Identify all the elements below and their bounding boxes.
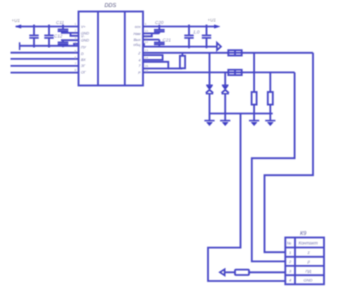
ground 2 (220, 114, 230, 126)
resistor R6 horizontal row3 (235, 270, 249, 275)
resistor R3 vertical (180, 53, 185, 69)
svg-text:GND: GND (81, 39, 89, 43)
svg-text:13: 13 (145, 49, 149, 53)
wire pin4 right (143, 39, 159, 41)
label right chip pin names (133, 25, 141, 75)
capacitor C21 (154, 40, 165, 47)
label pin numbers right (145, 23, 149, 73)
label pin numbers left (75, 23, 77, 73)
svg-text:C11: C11 (56, 20, 65, 25)
node output open triangle (217, 43, 221, 50)
ground 3 (249, 114, 259, 126)
svg-text:Σ: Σ (307, 250, 311, 255)
node +U1 right arrow (214, 25, 220, 28)
wire data bus line 2 left (11, 58, 79, 60)
svg-text:Z: Z (137, 51, 141, 55)
svg-text:12: 12 (145, 40, 149, 44)
svg-text:DDS: DDS (105, 3, 117, 9)
svg-text:C20: C20 (155, 20, 164, 25)
ground 4 (265, 114, 275, 126)
svg-text:Нам: Нам (133, 32, 141, 36)
svg-text:16: 16 (145, 69, 149, 73)
svg-text:ПД: ПД (306, 268, 312, 273)
wire pin5 right jog (143, 44, 144, 47)
wire pin6 right signal (143, 52, 228, 54)
svg-text:ПУ: ПУ (81, 45, 87, 49)
svg-text:3: 3 (289, 268, 292, 273)
wire pins 9-10 loop (143, 62, 168, 69)
svg-text:Р: Р (138, 71, 141, 75)
svg-text:+U1: +U1 (12, 18, 21, 23)
svg-text:4: 4 (139, 58, 141, 62)
svg-text:15: 15 (145, 65, 149, 69)
resistor R4 vertical (252, 53, 257, 114)
wire data bus line 3 left (11, 65, 79, 67)
wire pin3 right stub (143, 33, 152, 36)
svg-text:C21: C21 (163, 37, 172, 42)
svg-text:11: 11 (145, 36, 149, 40)
svg-text:Вых: Вых (134, 38, 141, 42)
svg-text:D: D (81, 52, 84, 56)
capacitor C9 left bypass 1 (29, 25, 38, 48)
resistor R2 horizontal (228, 70, 241, 75)
svg-text:1: 1 (75, 23, 77, 27)
svg-text:Контакт: Контакт (299, 241, 319, 246)
wire pin2 right (143, 32, 159, 34)
svg-text:3: 3 (75, 36, 77, 40)
wire row3 left segment (225, 271, 235, 273)
svg-text:GND: GND (304, 278, 313, 283)
svg-text:осн: осн (135, 25, 141, 29)
svg-text:2: 2 (288, 259, 292, 264)
capacitor C20 (154, 25, 165, 34)
svg-text:5: 5 (75, 50, 77, 54)
svg-text:C12: C12 (54, 34, 63, 39)
svg-text:14: 14 (145, 56, 149, 60)
svg-text:№: № (287, 240, 291, 245)
capacitor C10 left bypass 2 (44, 25, 53, 48)
wire +U rail right (pin out) (143, 26, 217, 28)
svg-text:8: 8 (75, 68, 77, 72)
diode VD1 (206, 53, 213, 114)
svg-text:6: 6 (75, 56, 77, 60)
resistor R5 vertical (268, 72, 273, 113)
wire pins 7-8 loop (143, 55, 163, 60)
wire left common rail (20, 45, 79, 47)
wire pin11 right signal (143, 71, 228, 73)
wire pin3 left stub (71, 33, 79, 36)
svg-text:9: 9 (145, 23, 147, 27)
wire pin4 left (61, 39, 79, 41)
wire pin6 net to right edge (242, 52, 313, 54)
wire pin11 net to corner (242, 71, 295, 73)
svg-text:4: 4 (289, 278, 292, 283)
wire data bus line 4 left (11, 72, 79, 74)
wire pin10 extension to R3 (168, 68, 182, 70)
svg-text:1: 1 (289, 250, 291, 255)
svg-text:7: 7 (139, 64, 142, 68)
svg-text:ОГ: ОГ (81, 71, 87, 75)
svg-text:10: 10 (145, 30, 149, 34)
wire pin5 left jog (74, 44, 79, 46)
node +U1 left arrow (15, 25, 21, 28)
wire right common rail (144, 46, 217, 48)
capacitor C11 (58, 25, 69, 33)
node left rail end bar (19, 42, 21, 50)
svg-text:ЗГ: ЗГ (81, 64, 86, 68)
capacitor C22 bypass right 1 (184, 25, 193, 49)
wire net row1 staircase (265, 53, 314, 252)
svg-text:1,0: 1,0 (193, 30, 200, 35)
svg-text:общ: общ (133, 43, 140, 47)
svg-text:V+: V+ (81, 25, 86, 29)
svg-text:β: β (307, 259, 311, 264)
wire net row4 ground link (208, 114, 285, 282)
resistor R1 horizontal (228, 50, 241, 55)
svg-text:+U1: +U1 (208, 18, 217, 23)
wire row3 right segment (249, 271, 285, 273)
svg-text:4: 4 (75, 41, 77, 45)
svg-text:К9: К9 (300, 231, 306, 237)
ground 1 (204, 114, 214, 126)
wire +U rail left (pin 1) (16, 26, 79, 28)
wire data bus line 1 left (11, 52, 79, 54)
wire net row2 staircase (252, 72, 295, 261)
svg-text:ВХ: ВХ (81, 58, 86, 62)
capacitor C23 bypass right 2 (202, 25, 211, 49)
svg-text:2: 2 (75, 29, 77, 33)
wire pin2 left (61, 32, 79, 34)
capacitor C12 (58, 40, 69, 47)
connector K9 table (285, 238, 324, 285)
svg-text:7: 7 (75, 62, 77, 66)
node input open triangle row3 (220, 269, 225, 275)
op-amp U1 DDS chip body (79, 12, 144, 86)
diode VD2 (222, 72, 229, 113)
wire ground bus (210, 113, 273, 115)
label left chip pin names (81, 25, 89, 75)
